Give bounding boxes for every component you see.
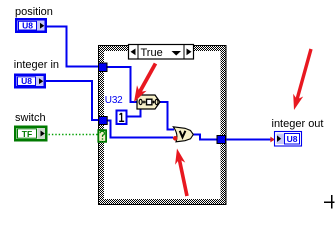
tunnel T1 bbox=[99, 63, 108, 72]
wire position to tunnel T1 bbox=[47, 27, 100, 67]
wire OR gate output to tunnel T3 bbox=[193, 135, 219, 140]
red annotation arrow 2 bbox=[175, 149, 187, 197]
label U32 bbox=[105, 95, 123, 106]
svg-text:U8: U8 bbox=[22, 21, 33, 31]
label integer out bbox=[272, 118, 324, 130]
OR gate bbox=[173, 127, 193, 142]
red annotation arrow 3 bbox=[293, 49, 311, 110]
svg-text:TF: TF bbox=[22, 129, 32, 139]
logical shift icon bbox=[137, 95, 160, 109]
wire shift icon to OR gate upper input bbox=[160, 102, 175, 130]
label position bbox=[15, 6, 53, 18]
label integer in bbox=[14, 59, 59, 71]
svg-text:True: True bbox=[141, 47, 163, 59]
svg-text:U32: U32 bbox=[105, 95, 123, 106]
wire tunnel T1 to shift icon bbox=[105, 67, 137, 102]
wire switch dotted to selector bbox=[49, 134, 99, 136]
label switch bbox=[15, 112, 46, 124]
wire integer-in to tunnel T2 bbox=[46, 81, 100, 120]
case selector label True bbox=[129, 45, 194, 60]
red annotation arrow 1 bbox=[134, 64, 156, 103]
svg-text:integer out: integer out bbox=[272, 118, 324, 130]
wire constant 1 to shift icon bbox=[127, 109, 141, 117]
red wire arrowhead at indicator bbox=[270, 137, 274, 143]
indicator integer out U8 bbox=[275, 132, 302, 147]
wire tunnel T2 to OR gate lower input bbox=[105, 121, 173, 138]
tunnel T3 bbox=[217, 136, 226, 144]
coercion dot bbox=[173, 136, 178, 141]
svg-text:U8: U8 bbox=[287, 134, 298, 144]
svg-text:integer in: integer in bbox=[14, 59, 59, 71]
tunnel T2 bbox=[99, 117, 108, 125]
control position U8 bbox=[15, 18, 47, 33]
control switch TF bbox=[14, 126, 48, 142]
svg-text:switch: switch bbox=[15, 112, 46, 124]
cursor plus bbox=[324, 195, 334, 209]
case selector terminal ? bbox=[98, 130, 106, 142]
numeric constant 1 bbox=[117, 111, 127, 125]
svg-text:U8: U8 bbox=[21, 76, 32, 86]
case structure border bbox=[98, 45, 227, 205]
svg-text:position: position bbox=[15, 6, 53, 18]
wire tunnel T3 to integer out bbox=[225, 139, 271, 141]
control integer in U8 bbox=[14, 74, 46, 89]
